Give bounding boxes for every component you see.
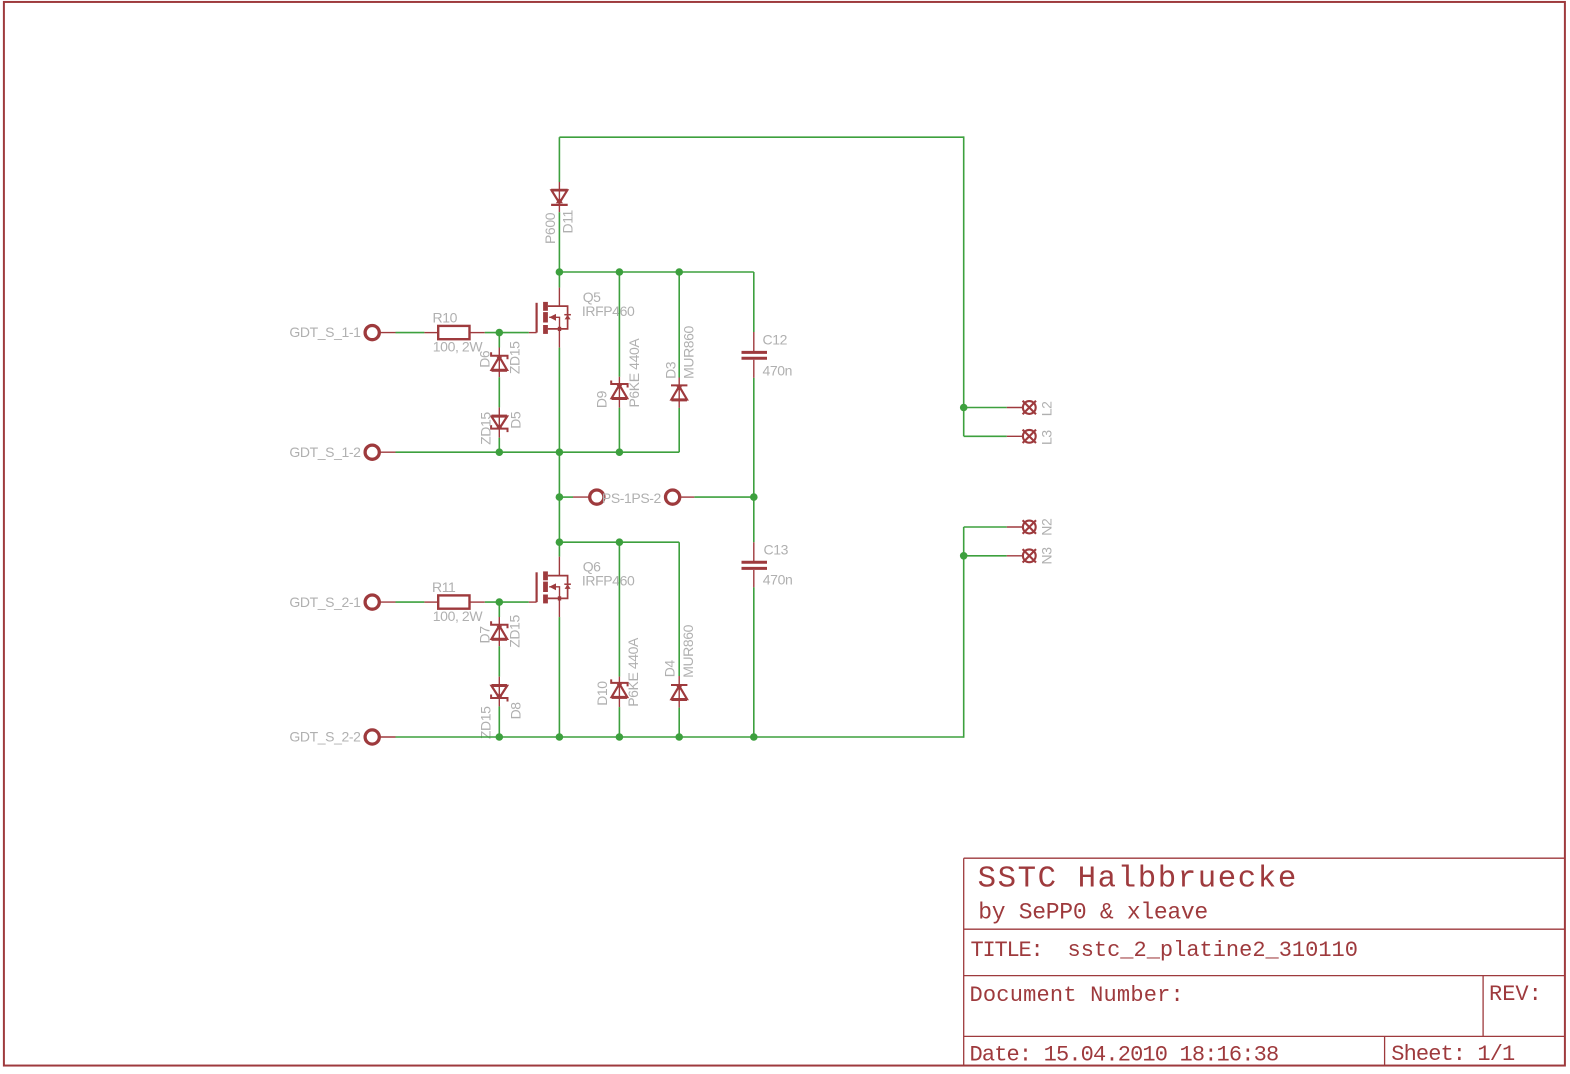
svg-text:R10: R10 <box>433 309 458 325</box>
svg-text:GDT_S_2-1: GDT_S_2-1 <box>289 594 361 610</box>
pin PS-1 pad <box>590 490 604 504</box>
resistor R10 <box>438 326 469 339</box>
wire R10 to gate junction <box>470 332 529 334</box>
junction (559.4,272) <box>556 268 564 276</box>
wire top rail VCC <box>559 136 963 138</box>
svg-text:D8: D8 <box>508 702 524 720</box>
diode D4 MUR860 upper segment <box>678 542 680 685</box>
pin GDT_S_2-2 pad <box>365 730 395 744</box>
zener diode D6 ZD15 <box>491 352 507 371</box>
pin pad N3 <box>1023 549 1036 562</box>
wire junction to D7 <box>498 602 500 625</box>
wire D5 to GDT_S_1-2 row <box>498 430 500 452</box>
zener diode D7 ZD15 <box>491 621 507 640</box>
svg-text:P6KE 440A: P6KE 440A <box>625 637 641 707</box>
wire L3 stub <box>964 435 1023 437</box>
junction (559.4,497.1) <box>556 493 564 501</box>
pin pad L2 <box>1023 401 1036 414</box>
svg-text:Date: 15.04.2010 18:16:38: Date: 15.04.2010 18:16:38 <box>970 1042 1279 1067</box>
svg-text:ZD15: ZD15 <box>506 615 522 648</box>
svg-text:D7: D7 <box>477 626 493 644</box>
junction (559.4,452.2) <box>556 448 564 456</box>
wire D10 lower segment <box>618 698 620 737</box>
svg-text:P600: P600 <box>542 212 558 244</box>
wire C12 upper segment <box>753 272 755 351</box>
svg-text:D4: D4 <box>662 660 678 678</box>
svg-text:IRFP460: IRFP460 <box>582 303 635 319</box>
diode D3 MUR860 upper segment <box>678 272 680 385</box>
wire D9 lower segment <box>618 399 620 452</box>
wire upper drain rail <box>559 271 753 273</box>
wire Q5 source to PS row <box>558 348 560 498</box>
junction (499.3,452.2) <box>496 448 504 456</box>
svg-text:D11: D11 <box>560 209 576 233</box>
svg-text:L2: L2 <box>1038 401 1054 416</box>
svg-text:P6KE 440A: P6KE 440A <box>626 338 642 408</box>
diode D11 P600 <box>551 190 568 205</box>
wire D8 to GDT_S_2-2 row <box>498 699 500 737</box>
svg-text:GDT_S_1-2: GDT_S_1-2 <box>289 444 361 460</box>
zener diode D10 P6KE440A upper segment <box>618 542 620 683</box>
wire C13 lower segment <box>753 570 755 737</box>
pin PS-2 pad <box>666 490 680 504</box>
wire Q6 drain from PS row <box>558 497 560 557</box>
svg-text:D10: D10 <box>594 681 610 706</box>
wire lower drain rail <box>559 541 679 543</box>
wire GDT_S_1-1 to R10 <box>396 332 439 334</box>
zener diode D5 ZD15 <box>491 416 507 433</box>
junction (619.4,452.2) <box>616 448 624 456</box>
transistor Q6 IRFP460 <box>529 557 571 617</box>
wire Q5 drain segment <box>558 272 560 288</box>
svg-text:D6: D6 <box>477 350 493 368</box>
wire C13 upper segment <box>753 497 755 561</box>
wire D11 bottom segment <box>558 206 560 272</box>
svg-text:GDT_S_1-1: GDT_S_1-1 <box>289 324 361 340</box>
svg-text:C13: C13 <box>764 542 789 558</box>
junction (619.4,737) <box>616 733 624 741</box>
svg-text:100, 2W: 100, 2W <box>433 608 484 624</box>
wire N2 stub <box>964 526 1023 528</box>
transistor Q5 IRFP460 <box>529 288 571 348</box>
svg-text:R11: R11 <box>432 579 456 595</box>
zener diode D9 symbol <box>611 381 627 400</box>
pin pad N2 <box>1023 520 1036 533</box>
wire L2 stub <box>964 407 1023 409</box>
svg-text:Sheet: 1/1: Sheet: 1/1 <box>1391 1042 1515 1067</box>
wire right upper vertical to L2/L3 <box>963 136 965 436</box>
svg-text:SSTC Halbbruecke: SSTC Halbbruecke <box>978 862 1298 897</box>
svg-text:GDT_S_2-2: GDT_S_2-2 <box>289 729 361 745</box>
junction (679.2,737) <box>675 733 683 741</box>
svg-text:TITLE:: TITLE: <box>971 938 1043 963</box>
wire C12 lower segment <box>753 360 755 497</box>
svg-text:L3: L3 <box>1038 430 1054 445</box>
svg-text:D5: D5 <box>508 411 524 429</box>
junction (753.8,497.1) <box>750 493 758 501</box>
wire PS row right <box>680 496 754 498</box>
capacitor C12 470n <box>742 352 768 358</box>
zener diode D9 P6KE440A upper segment <box>618 272 620 384</box>
svg-text:470n: 470n <box>763 571 793 587</box>
svg-text:IRFP460: IRFP460 <box>582 572 635 588</box>
wire D4 lower segment <box>678 700 680 737</box>
wire Q6 source to bottom rail <box>558 617 560 737</box>
resistor R11 <box>438 595 469 608</box>
pin pad L3 <box>1023 430 1036 443</box>
svg-text:REV:: REV: <box>1489 982 1542 1007</box>
svg-text:470n: 470n <box>763 363 793 379</box>
svg-text:D3: D3 <box>663 361 679 379</box>
svg-text:N3: N3 <box>1038 547 1054 565</box>
title block <box>964 858 1565 1066</box>
wire GDT_S_2-2 bottom rail <box>396 736 964 738</box>
pin GDT_S_1-2 pad <box>365 445 395 459</box>
svg-text:MUR860: MUR860 <box>681 325 697 378</box>
junction (753.8,737) <box>750 733 758 741</box>
wire D11 top segment <box>558 137 560 189</box>
svg-text:Document Number:: Document Number: <box>970 983 1184 1008</box>
svg-text:by SePP0 & xleave: by SePP0 & xleave <box>978 900 1208 926</box>
wire PS row left <box>559 496 589 498</box>
wire D3 lower segment <box>678 400 680 452</box>
diode D3 symbol <box>671 385 687 400</box>
junction (499.3,737) <box>496 733 504 741</box>
svg-text:N2: N2 <box>1038 518 1054 536</box>
wire N3 stub <box>964 555 1023 557</box>
wire D7 to D8 <box>498 640 500 685</box>
junction (499.3,332.6) <box>496 329 504 337</box>
svg-text:ZD15: ZD15 <box>478 706 494 739</box>
svg-text:ZD15: ZD15 <box>478 412 494 445</box>
junction (559.4,737) <box>556 733 564 741</box>
svg-text:C12: C12 <box>763 332 788 348</box>
svg-text:D9: D9 <box>594 390 610 408</box>
zener diode D10 symbol <box>611 679 627 698</box>
pin GDT_S_2-1 pad <box>365 595 395 609</box>
junction (963.7,555.8) <box>960 552 968 560</box>
junction (963.7,407.5) <box>960 404 968 412</box>
svg-text:PS-1PS-2: PS-1PS-2 <box>602 490 662 506</box>
wire R11 to gate junction <box>470 601 529 603</box>
wire junction to D6 <box>498 333 500 356</box>
wire D6 to D5 <box>498 371 500 416</box>
zener diode D8 ZD15 <box>491 685 507 702</box>
junction (499.3,602.1) <box>496 598 504 606</box>
capacitor C13 470n <box>742 562 768 568</box>
junction (619.4,272) <box>616 268 624 276</box>
svg-text:MUR860: MUR860 <box>680 624 696 677</box>
wire GDT_S_2-1 to R11 <box>396 601 439 603</box>
pin GDT_S_1-1 pad <box>365 326 395 340</box>
junction (679.2,272) <box>675 268 683 276</box>
wire GDT_S_1-2 row <box>396 451 680 453</box>
wire right lower vertical <box>963 527 965 738</box>
svg-text:ZD15: ZD15 <box>506 341 522 374</box>
svg-text:sstc_2_platine2_310110: sstc_2_platine2_310110 <box>1068 938 1358 963</box>
junction (619.4,542.2) <box>616 538 624 546</box>
diode D4 symbol <box>671 685 687 700</box>
junction (559.4,542.2) <box>556 538 564 546</box>
